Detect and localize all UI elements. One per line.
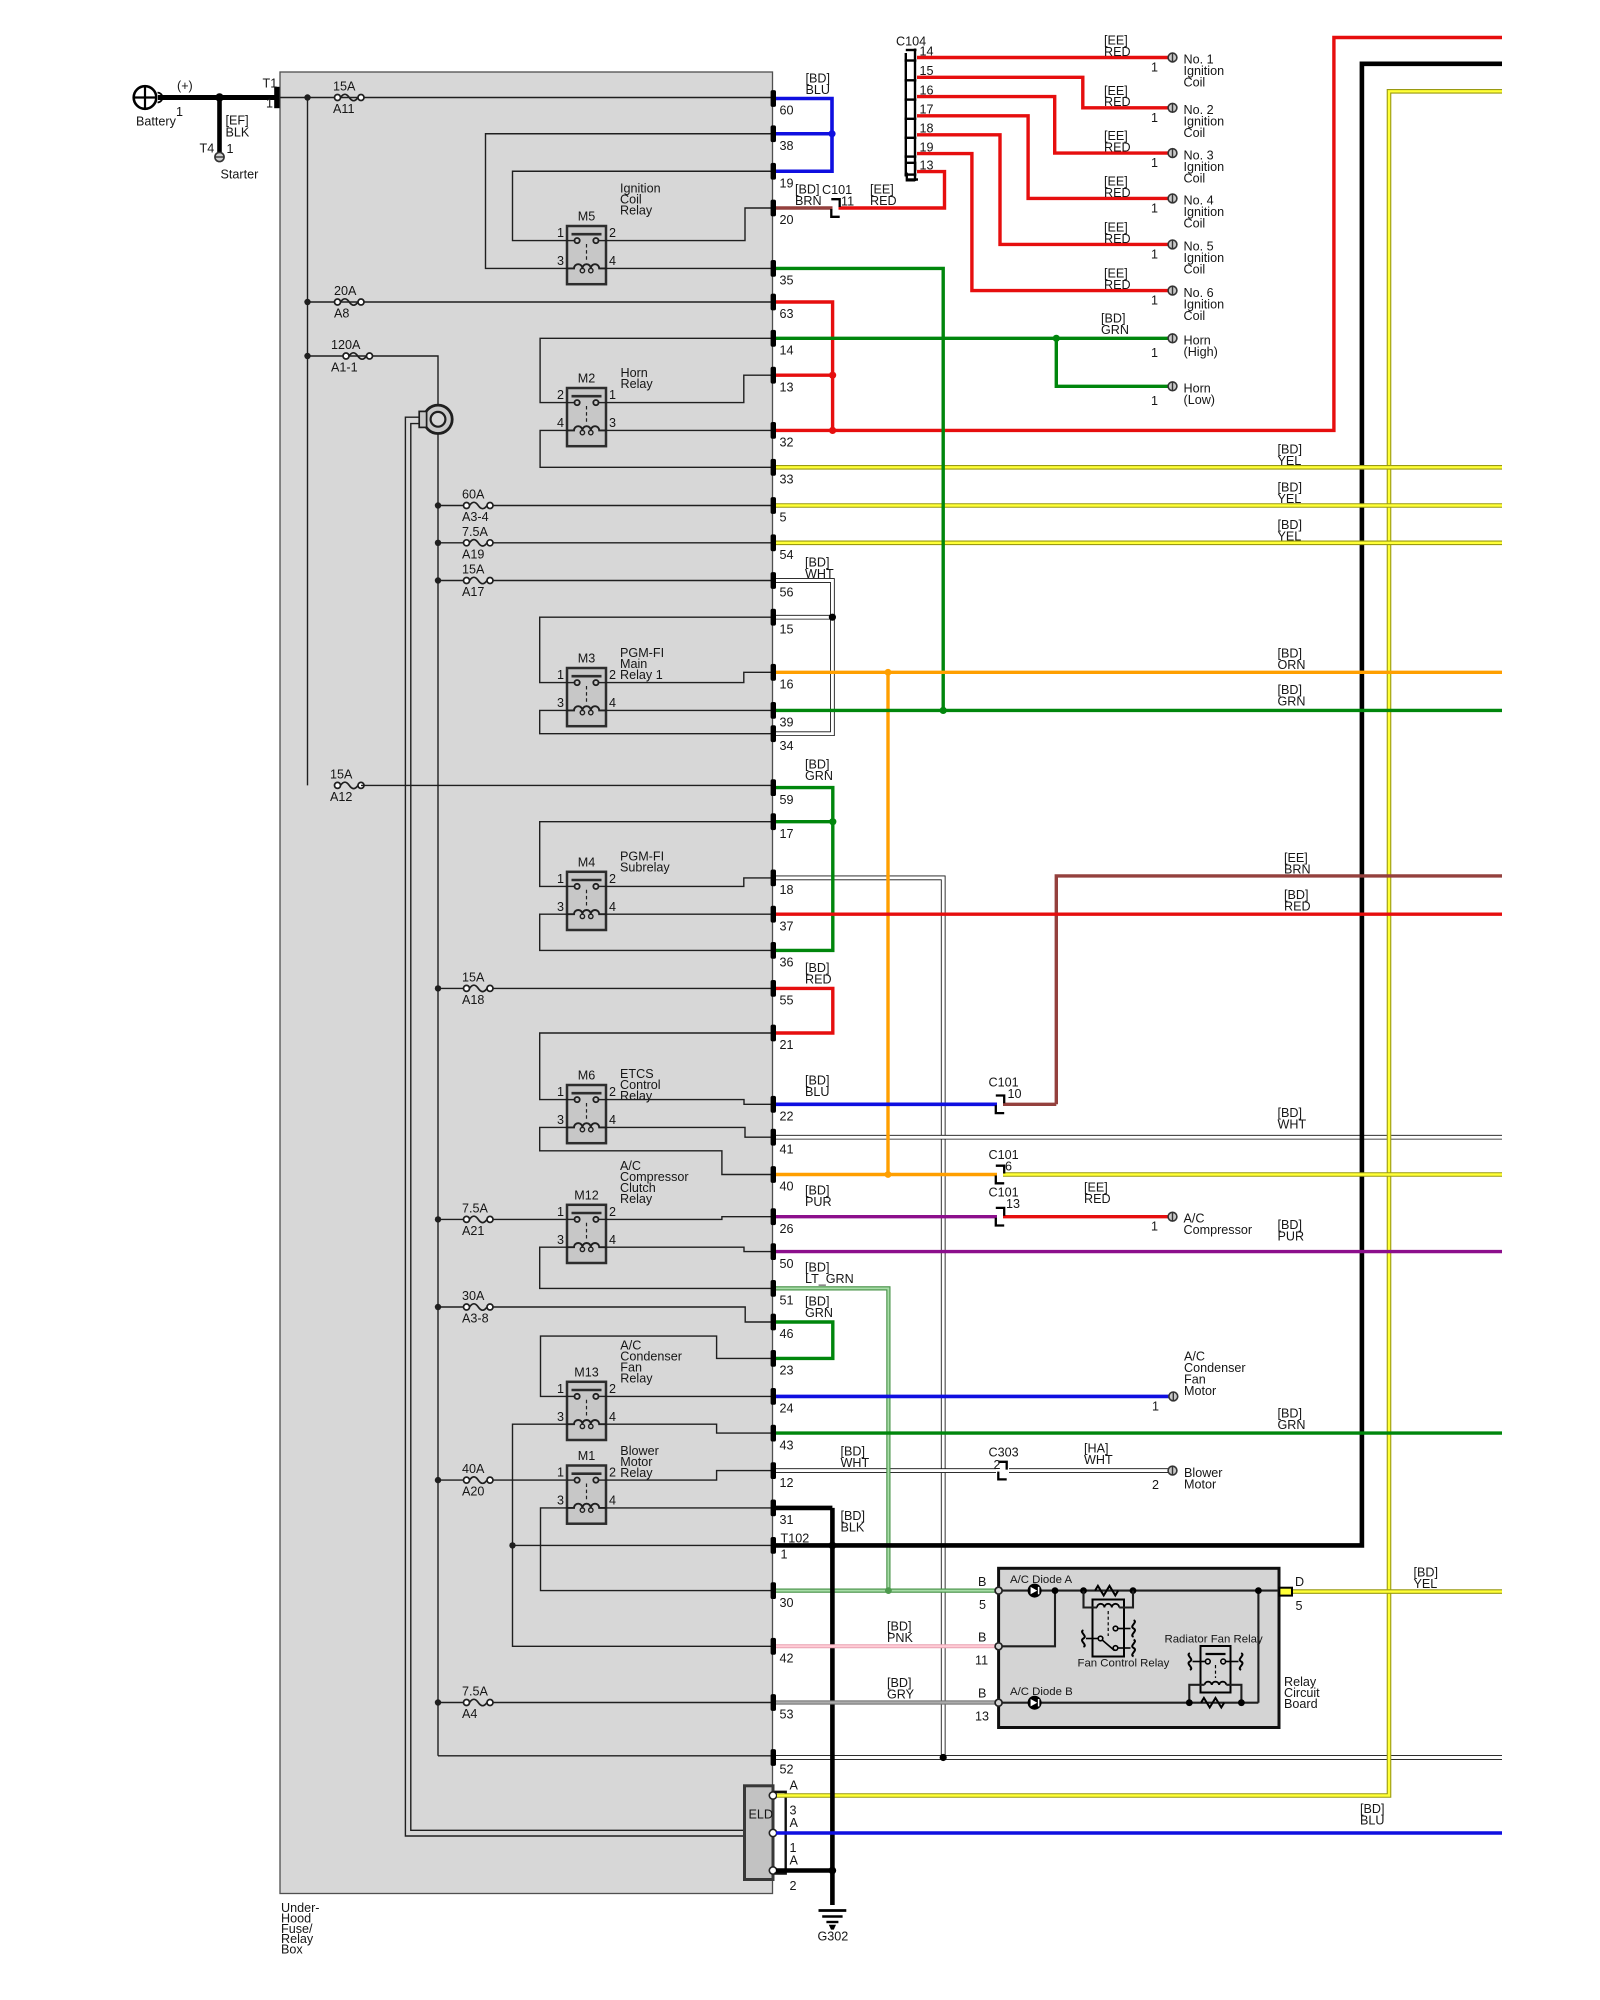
wire battery feed to pin 60 bbox=[279, 97, 771, 99]
node bus junction A18 bbox=[435, 985, 441, 991]
svg-text:1: 1 bbox=[557, 226, 564, 240]
svg-text:3: 3 bbox=[557, 900, 564, 914]
wire M13 pin1 to pin 23 bbox=[541, 1336, 772, 1396]
svg-text:A8: A8 bbox=[334, 307, 349, 321]
svg-text:1: 1 bbox=[1151, 294, 1158, 308]
board terminal B13 bbox=[995, 1699, 1002, 1706]
label [BD] GRN horn bbox=[1101, 312, 1129, 338]
pin 19 bbox=[771, 163, 794, 191]
wire fuse A19 to pin 54 bbox=[493, 542, 771, 544]
resistor board top bbox=[1095, 1586, 1118, 1596]
wire M4 pin2 to pin 18 bbox=[606, 878, 771, 887]
wire [BD] GRN pin 35 vertical bbox=[776, 268, 943, 710]
wire [BD] RED pins 55/21 bbox=[776, 988, 833, 1033]
svg-text:T4: T4 bbox=[200, 142, 215, 156]
label [BD] PUR pin 50 bbox=[1278, 1218, 1305, 1244]
svg-text:2: 2 bbox=[557, 388, 564, 402]
starter terminal bbox=[215, 152, 224, 161]
fuse A3-4 60A bbox=[462, 488, 493, 525]
label [BD] GRN pin 43 bbox=[1278, 1407, 1306, 1433]
label [EE] RED coil 6 bbox=[1104, 267, 1131, 292]
svg-text:40A: 40A bbox=[462, 1462, 485, 1476]
wire yellow trunk bbox=[777, 91, 1502, 1795]
fuse A21 7.5A bbox=[462, 1201, 493, 1238]
connector C101 pin 6 bbox=[996, 1166, 1004, 1184]
svg-text:Radiator Fan Relay: Radiator Fan Relay bbox=[1165, 1634, 1263, 1646]
svg-text:PNK: PNK bbox=[887, 1631, 913, 1645]
node T102 tee junction bbox=[509, 1542, 515, 1548]
label [BD] GRN pin 46 bbox=[805, 1295, 833, 1321]
svg-text:1: 1 bbox=[557, 872, 564, 886]
label [EE] RED compressor bbox=[1084, 1181, 1111, 1207]
label No. 1 Ignition Coil bbox=[1151, 53, 1224, 90]
svg-text:7.5A: 7.5A bbox=[462, 1685, 489, 1699]
connector C101 pin 10 bbox=[996, 1096, 1004, 1114]
svg-text:43: 43 bbox=[780, 1438, 794, 1452]
wire M6 pin3 to pin 40 bbox=[540, 1127, 771, 1174]
terminal No. 6 ignition coil bbox=[1168, 286, 1177, 295]
svg-text:M2: M2 bbox=[578, 372, 596, 386]
svg-text:GRN: GRN bbox=[805, 769, 833, 783]
wire bus to fuse A19 bbox=[438, 542, 464, 544]
svg-text:ELD: ELD bbox=[749, 1808, 774, 1822]
svg-text:18: 18 bbox=[780, 883, 794, 897]
wire [EE] RED C104 to No. 4 ignition coil bbox=[917, 116, 1168, 199]
svg-text:2: 2 bbox=[609, 1085, 616, 1099]
wire ELD A2 to ground wire bbox=[776, 1868, 832, 1873]
relay M12 A/C Compressor Clutch Relay bbox=[557, 1188, 616, 1263]
svg-text:WHT: WHT bbox=[1278, 1118, 1307, 1132]
label [BD] BLK pin 31 bbox=[841, 1509, 866, 1535]
pin 24 bbox=[771, 1388, 794, 1416]
svg-text:1: 1 bbox=[176, 105, 183, 119]
label [BD] PUR pin 26 bbox=[805, 1184, 832, 1210]
svg-text:14: 14 bbox=[780, 344, 794, 358]
svg-text:C101: C101 bbox=[989, 1148, 1019, 1162]
pin 16 bbox=[771, 664, 794, 692]
label [BD] GRN pin 59 bbox=[805, 758, 833, 784]
svg-text:A20: A20 bbox=[462, 1485, 484, 1499]
wire [HA] WHT C303 to blower motor bbox=[1009, 1468, 1168, 1473]
svg-text:Box: Box bbox=[281, 1943, 303, 1957]
svg-text:Coil: Coil bbox=[1184, 126, 1206, 140]
connector C303 pin 2 bbox=[998, 1462, 1006, 1480]
svg-text:1: 1 bbox=[557, 1466, 564, 1480]
svg-text:A12: A12 bbox=[330, 790, 352, 804]
label B 13 bbox=[975, 1687, 989, 1724]
svg-text:YEL: YEL bbox=[1278, 454, 1302, 468]
resistor board bottom bbox=[1201, 1698, 1224, 1708]
svg-text:Coil: Coil bbox=[1184, 171, 1206, 185]
svg-text:M5: M5 bbox=[578, 210, 596, 224]
node green junction pin 39 bbox=[940, 707, 947, 714]
wire M13 pin2 to pin 24 bbox=[606, 1395, 771, 1397]
node board junction bottom left bbox=[1186, 1699, 1193, 1706]
svg-text:12: 12 bbox=[780, 1476, 794, 1490]
node board junction resistor right bbox=[1130, 1587, 1137, 1594]
svg-text:A3-8: A3-8 bbox=[462, 1312, 489, 1326]
pin 32 bbox=[771, 422, 794, 450]
svg-text:19: 19 bbox=[780, 176, 794, 190]
wire M5 pin4 to pin 35 bbox=[606, 267, 771, 269]
label C101 6 bbox=[989, 1148, 1019, 1174]
pin 43 bbox=[771, 1425, 794, 1453]
wire T102 pin 1 internal bbox=[513, 1544, 772, 1546]
terminal Blower motor bbox=[1168, 1466, 1177, 1475]
node green horn junction bbox=[1053, 335, 1060, 342]
wire board top rail B5 to D bbox=[1002, 1590, 1279, 1592]
label No. 4 Ignition Coil bbox=[1151, 194, 1224, 231]
label [BD] BLU ELD A1 bbox=[1360, 1802, 1385, 1828]
label Relay Circuit Board bbox=[1284, 1675, 1320, 1711]
connector bracket radiator fan relay right bbox=[1240, 1653, 1243, 1670]
wire main fuse bus bbox=[437, 419, 439, 1756]
svg-text:GRN: GRN bbox=[1101, 323, 1129, 337]
ELD terminal A2 bbox=[769, 1867, 776, 1874]
svg-text:63: 63 bbox=[780, 307, 794, 321]
A/C diode B bbox=[1028, 1696, 1042, 1710]
wire bus to fuse A20 bbox=[438, 1479, 464, 1481]
pin 20 bbox=[771, 200, 794, 228]
svg-text:A4: A4 bbox=[462, 1707, 477, 1721]
svg-text:26: 26 bbox=[780, 1222, 794, 1236]
svg-text:BLK: BLK bbox=[226, 126, 250, 140]
fuse A11 15A bbox=[333, 80, 364, 117]
svg-text:30A: 30A bbox=[462, 1289, 485, 1303]
wire [BD] WHT pin 12 to C303 bbox=[776, 1468, 996, 1473]
svg-text:5: 5 bbox=[1296, 1599, 1303, 1613]
svg-text:1: 1 bbox=[781, 1548, 788, 1562]
svg-text:Coil: Coil bbox=[1184, 76, 1206, 90]
svg-text:7.5A: 7.5A bbox=[462, 1201, 489, 1215]
pin 51 bbox=[771, 1280, 794, 1308]
svg-text:Motor: Motor bbox=[1184, 1478, 1216, 1492]
svg-text:A/C Diode B: A/C Diode B bbox=[1010, 1686, 1073, 1698]
label PGM-FI Subrelay bbox=[620, 850, 670, 875]
terminal T1 bbox=[274, 87, 279, 108]
connector C101 pin 11 bbox=[831, 199, 839, 217]
svg-text:BLK: BLK bbox=[841, 1521, 865, 1535]
wire bus to fuse A3-4 bbox=[438, 505, 464, 507]
wire fuse A20 to relay M1 pin 1 bbox=[493, 1479, 567, 1481]
label Blower Motor Relay bbox=[620, 1444, 659, 1480]
node blue junction pin 38 bbox=[828, 130, 835, 137]
fuse A3-8 30A bbox=[462, 1289, 493, 1326]
svg-text:1: 1 bbox=[557, 1382, 564, 1396]
svg-text:15A: 15A bbox=[330, 767, 353, 781]
pin 17 bbox=[771, 813, 794, 841]
pin 54 bbox=[771, 534, 794, 562]
svg-text:16: 16 bbox=[780, 678, 794, 692]
label B 11 bbox=[975, 1631, 988, 1668]
ELD terminal A1 bbox=[769, 1829, 776, 1836]
svg-text:3: 3 bbox=[557, 1410, 564, 1424]
svg-text:10: 10 bbox=[1008, 1087, 1022, 1101]
svg-text:M12: M12 bbox=[574, 1188, 599, 1202]
svg-text:M6: M6 bbox=[578, 1069, 596, 1083]
svg-text:23: 23 bbox=[780, 1364, 794, 1378]
svg-text:40: 40 bbox=[780, 1180, 794, 1194]
wire M3 pin2 to pin 16 bbox=[606, 672, 771, 682]
svg-text:1: 1 bbox=[1151, 201, 1158, 215]
svg-text:WHT: WHT bbox=[841, 1456, 870, 1470]
svg-text:RED: RED bbox=[1104, 278, 1131, 292]
connector C104 bbox=[905, 49, 919, 182]
wire M4 pin4 to pin 37 bbox=[606, 913, 771, 915]
svg-text:13: 13 bbox=[780, 380, 794, 394]
label A/C Condenser Fan Motor bbox=[1152, 1350, 1246, 1414]
svg-text:A: A bbox=[790, 1816, 799, 1830]
relay M13 A/C Condenser Fan Relay bbox=[557, 1365, 616, 1440]
svg-text:1: 1 bbox=[266, 97, 273, 111]
svg-text:1: 1 bbox=[227, 142, 234, 156]
svg-text:B: B bbox=[978, 1631, 986, 1645]
svg-text:4: 4 bbox=[609, 1113, 616, 1127]
wire board bottom rail bbox=[1002, 1702, 1258, 1704]
node board junction resistor left bbox=[1080, 1587, 1087, 1594]
svg-text:4: 4 bbox=[609, 1410, 616, 1424]
svg-text:RED: RED bbox=[1104, 141, 1131, 155]
node white wire junction pin 15 bbox=[829, 614, 836, 621]
svg-text:15A: 15A bbox=[462, 970, 485, 984]
svg-text:15A: 15A bbox=[462, 563, 485, 577]
wire [BD] ORN pin 40 to C101 pin 6 bbox=[776, 1173, 997, 1176]
ELD connector bracket bbox=[775, 1792, 786, 1874]
svg-text:Relay: Relay bbox=[621, 377, 654, 391]
label C101 10 bbox=[989, 1076, 1022, 1102]
svg-text:Relay: Relay bbox=[620, 204, 653, 218]
svg-text:A: A bbox=[790, 1779, 799, 1793]
wire M2 pin4 to pin 33 bbox=[540, 430, 771, 467]
wire [BD] BRN pin 20 to C101 pin 11 bbox=[776, 206, 833, 209]
svg-text:34: 34 bbox=[780, 739, 794, 753]
svg-text:2: 2 bbox=[609, 226, 616, 240]
svg-text:60A: 60A bbox=[462, 488, 485, 502]
label [BD] WHT pin 12 bbox=[841, 1445, 870, 1471]
svg-text:15: 15 bbox=[780, 622, 794, 636]
node bus junction A3-8 bbox=[435, 1304, 441, 1310]
node bus junction A17 bbox=[435, 577, 441, 583]
svg-text:33: 33 bbox=[780, 473, 794, 487]
svg-text:Relay: Relay bbox=[620, 1192, 653, 1206]
pin 14 bbox=[771, 330, 794, 358]
label [EE] RED coil 1 bbox=[1104, 34, 1131, 59]
terminal No. 5 ignition coil bbox=[1168, 240, 1177, 249]
wire [BD] YEL C101 pin 6 to right bbox=[1003, 1172, 1502, 1177]
wire fuse A18 to pin 55 bbox=[493, 987, 771, 989]
wire [EE] BRN C101 pin 10 stub bbox=[1003, 1103, 1056, 1106]
svg-text:A11: A11 bbox=[333, 102, 354, 116]
svg-text:53: 53 bbox=[780, 1708, 794, 1722]
svg-text:1: 1 bbox=[1151, 61, 1158, 75]
svg-text:RED: RED bbox=[1284, 900, 1311, 914]
svg-text:20: 20 bbox=[780, 213, 794, 227]
wire [BD] BLU pin 24 to A/C condenser fan motor bbox=[776, 1395, 1169, 1399]
terminal No. 3 ignition coil bbox=[1168, 149, 1177, 158]
pin 55 bbox=[771, 980, 794, 1008]
svg-text:38: 38 bbox=[780, 139, 794, 153]
wire left feed bus bbox=[307, 98, 309, 786]
svg-text:BLU: BLU bbox=[1360, 1814, 1385, 1828]
wire [BD] LT GRN pin 51 bbox=[776, 1288, 888, 1590]
wire [BD] PUR pin 50 to right bbox=[776, 1250, 1502, 1253]
wire [BD] RED pin 37 to right bbox=[776, 913, 1502, 916]
wire M12 pin2 to pin 26 bbox=[606, 1217, 771, 1220]
wire [BD] YEL pin 33 bbox=[776, 465, 1502, 470]
label [BD] RED pin 37 bbox=[1284, 888, 1311, 914]
svg-text:35: 35 bbox=[780, 274, 794, 288]
wire fuse A21 to relay M12 pin 1 bbox=[493, 1218, 567, 1220]
svg-text:2: 2 bbox=[609, 1382, 616, 1396]
svg-text:BRN: BRN bbox=[795, 194, 822, 208]
label Blower Motor bbox=[1152, 1466, 1223, 1492]
label (+) Battery 1 bbox=[136, 79, 193, 129]
svg-text:RED: RED bbox=[805, 973, 832, 987]
svg-text:ORN: ORN bbox=[1278, 658, 1306, 672]
svg-text:1: 1 bbox=[1152, 1400, 1159, 1414]
wire [BD] RED pins 63/13/32 bbox=[776, 302, 833, 430]
svg-text:RED: RED bbox=[870, 194, 897, 208]
wire M12 pin3 to pin 51 bbox=[540, 1247, 771, 1288]
pin 26 bbox=[771, 1208, 794, 1236]
fuse A20 40A bbox=[462, 1462, 493, 1499]
svg-text:Relay 1: Relay 1 bbox=[620, 668, 663, 682]
pin 13 bbox=[771, 367, 794, 395]
board terminal B11 bbox=[995, 1643, 1002, 1650]
label No. 5 Ignition Coil bbox=[1151, 240, 1224, 277]
svg-text:30: 30 bbox=[780, 1596, 794, 1610]
node 20A feed junction bbox=[304, 299, 310, 305]
pin 46 bbox=[771, 1314, 794, 1342]
svg-text:24: 24 bbox=[780, 1402, 794, 1416]
svg-text:M13: M13 bbox=[574, 1365, 599, 1379]
node 120A feed junction bbox=[304, 353, 310, 359]
label Horn Relay bbox=[621, 366, 654, 391]
connector C101 pin 13 bbox=[996, 1208, 1004, 1226]
label [EE] RED coil 2 bbox=[1104, 84, 1131, 109]
label B 5 bbox=[978, 1575, 986, 1612]
svg-text:YEL: YEL bbox=[1278, 530, 1302, 544]
wire [BD] YEL pin 5 bbox=[776, 503, 1502, 508]
svg-text:(Low): (Low) bbox=[1184, 393, 1216, 407]
pin 63 bbox=[771, 294, 794, 322]
wire M2 pin2 to pin 14 bbox=[540, 338, 771, 402]
connector C104 pin 13 stub bbox=[907, 163, 915, 181]
svg-text:4: 4 bbox=[609, 254, 616, 268]
svg-text:20A: 20A bbox=[334, 284, 357, 298]
svg-text:Motor: Motor bbox=[1184, 1384, 1216, 1398]
fuse A4 7.5A bbox=[462, 1685, 493, 1722]
wire M12 pin4 to pin 50 bbox=[606, 1247, 771, 1251]
label [BD] PNK pin 42 bbox=[887, 1620, 913, 1646]
label [EE] RED coil 3 bbox=[1104, 129, 1131, 154]
svg-text:Relay: Relay bbox=[620, 1089, 653, 1103]
svg-text:(High): (High) bbox=[1184, 345, 1218, 359]
svg-text:3: 3 bbox=[557, 696, 564, 710]
label [EF] BLK T4 1 bbox=[200, 114, 250, 157]
fuse A18 15A bbox=[462, 970, 493, 1007]
node black junction ELD A2 bbox=[829, 1867, 837, 1875]
node lt grn junction bbox=[885, 1587, 892, 1594]
wire M6 pin4 to pin 41 bbox=[606, 1127, 771, 1137]
label [BD] BLU pin 60 bbox=[806, 72, 831, 98]
fuse A12 15A bbox=[330, 767, 364, 804]
fuse A17 15A bbox=[462, 563, 493, 600]
svg-text:A18: A18 bbox=[462, 993, 484, 1007]
svg-text:46: 46 bbox=[780, 1327, 794, 1341]
svg-text:G302: G302 bbox=[818, 1930, 849, 1944]
svg-text:5: 5 bbox=[780, 511, 787, 525]
ELD terminal A3 bbox=[769, 1792, 776, 1799]
svg-text:13: 13 bbox=[975, 1710, 989, 1724]
node board junction diode A bbox=[1052, 1587, 1059, 1594]
pin T102 1 bbox=[771, 1532, 810, 1562]
svg-text:2: 2 bbox=[609, 1205, 616, 1219]
wire M3 pin3 to pin 34 bbox=[540, 710, 771, 733]
svg-text:T1: T1 bbox=[263, 77, 278, 91]
board terminal D bbox=[1279, 1588, 1292, 1596]
svg-text:M1: M1 bbox=[578, 1449, 596, 1463]
wire [BD] YEL relay board D to right bbox=[1292, 1589, 1502, 1594]
svg-text:42: 42 bbox=[780, 1652, 794, 1666]
wire [BD] LT GRN pin 30 to relay circuit board B5 bbox=[776, 1588, 995, 1592]
svg-text:55: 55 bbox=[780, 994, 794, 1008]
label No. 6 Ignition Coil bbox=[1151, 286, 1224, 323]
svg-text:Coil: Coil bbox=[1184, 263, 1206, 277]
svg-text:2: 2 bbox=[609, 872, 616, 886]
svg-text:M3: M3 bbox=[578, 652, 596, 666]
wire [BD] WHT pin 18 down to pin 52 wire bbox=[776, 878, 943, 1758]
node battery/starter junction bbox=[215, 93, 223, 101]
battery B1 bbox=[134, 86, 163, 109]
svg-text:60: 60 bbox=[780, 104, 794, 118]
svg-text:A/C Diode A: A/C Diode A bbox=[1010, 1574, 1072, 1586]
fan control relay bbox=[1084, 1591, 1134, 1657]
pin 31 bbox=[771, 1500, 794, 1528]
pin 30 bbox=[771, 1582, 794, 1610]
svg-text:GRN: GRN bbox=[1278, 1418, 1306, 1432]
wire bus to fuse A3-8 bbox=[438, 1306, 464, 1308]
wire bus to fuse A18 bbox=[438, 987, 464, 989]
svg-text:WHT: WHT bbox=[1084, 1453, 1113, 1467]
wire ELD sensor sense pair to ELD unit bbox=[405, 417, 744, 1836]
svg-text:Battery: Battery bbox=[136, 115, 177, 129]
label [BD] LT GRN pin 51 bbox=[805, 1261, 854, 1287]
wire M2 pin3 to pin 32 bbox=[606, 429, 771, 431]
svg-text:Fan Control Relay: Fan Control Relay bbox=[1078, 1658, 1170, 1670]
svg-text:59: 59 bbox=[780, 793, 794, 807]
svg-text:4: 4 bbox=[609, 1233, 616, 1247]
relay M5 Ignition Coil Relay bbox=[557, 210, 616, 285]
svg-text:RED: RED bbox=[1104, 95, 1131, 109]
pin 40 bbox=[771, 1166, 794, 1194]
node bus junction A3-4 bbox=[435, 502, 441, 508]
svg-text:2: 2 bbox=[609, 1466, 616, 1480]
wire [BD] BLK pin 31 bbox=[776, 1506, 832, 1511]
label ELD pins A3 A1 A2 bbox=[790, 1779, 799, 1894]
label [EE] BRN right bbox=[1284, 851, 1311, 877]
connector bracket fan control relay right lower bbox=[1132, 1640, 1135, 1657]
svg-text:D: D bbox=[1295, 1575, 1304, 1589]
svg-text:1: 1 bbox=[1151, 156, 1158, 170]
svg-text:WHT: WHT bbox=[805, 567, 834, 581]
node black junction T102 bbox=[829, 1542, 837, 1550]
wire M4 pin3 to pin 36 bbox=[540, 914, 771, 950]
label No. 3 Ignition Coil bbox=[1151, 148, 1224, 185]
svg-text:13: 13 bbox=[1006, 1197, 1020, 1211]
wire M13 pin3 to pin 42 bbox=[513, 1424, 772, 1646]
label D 5 bbox=[1295, 1575, 1304, 1613]
